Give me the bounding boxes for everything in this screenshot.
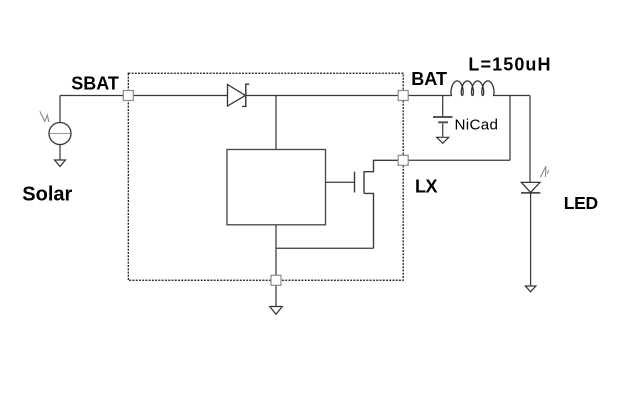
svg-text:Solar: Solar	[22, 184, 72, 206]
svg-text:LED: LED	[564, 193, 598, 213]
svg-text:L=150uH: L=150uH	[468, 55, 551, 75]
svg-text:LX: LX	[415, 176, 437, 196]
svg-text:BAT: BAT	[411, 69, 447, 89]
svg-text:SBAT: SBAT	[71, 73, 119, 93]
svg-text:NiCad: NiCad	[455, 117, 499, 134]
